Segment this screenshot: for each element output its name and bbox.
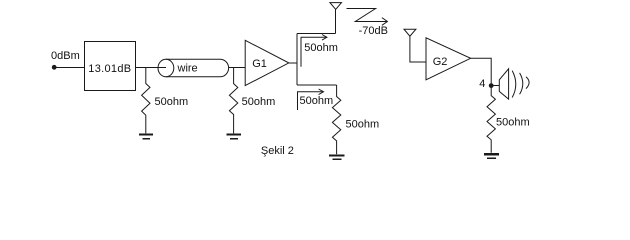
impedance arrow A1 50ohm [301,37,327,66]
wire bottom horizontal to R3 [297,84,337,86]
resistor R4 50ohm [487,86,495,153]
svg-text:4: 4 [479,78,485,90]
transmission line cylinder (wire) [158,59,174,77]
svg-text:-70dB: -70dB [359,25,388,37]
op-amp G2 triangle [426,38,471,80]
path loss bolt -70dB [347,9,388,22]
resistor R1 50ohm [142,68,150,134]
wire attenuator to transmission line [136,67,166,69]
svg-text:50ohm: 50ohm [304,42,338,54]
svg-text:50ohm: 50ohm [346,118,380,130]
svg-text:50ohm: 50ohm [155,96,189,108]
resistor R2 50ohm [229,68,237,134]
node 4 dot [489,83,494,88]
node source dot [52,65,57,70]
svg-text:0dBm: 0dBm [51,50,80,62]
attenuator box 13.01dB [84,41,135,90]
svg-text:wire: wire [177,62,198,74]
ground of R3 [329,154,344,156]
svg-text:Şekil 2: Şekil 2 [261,145,294,157]
op-amp G1 triangle [245,40,289,85]
svg-text:13.01dB: 13.01dB [88,63,131,75]
svg-text:G2: G2 [433,56,448,68]
ground of R4 [484,153,499,155]
wire cylinder to G1 [229,67,246,69]
svg-text:50ohm: 50ohm [496,117,530,129]
wire main vertical [296,34,298,85]
wire top horizontal to antenna [297,33,336,35]
wire node to speaker [493,85,499,87]
svg-text:G1: G1 [252,58,267,70]
speaker load [499,69,508,99]
impedance arrow A2 50ohm [298,92,324,110]
ground of R2 [227,134,241,136]
wire source to attenuator [56,67,84,69]
antenna TX [330,3,342,10]
resistor R3 50ohm [332,85,340,154]
svg-text:50ohm: 50ohm [300,95,334,107]
ground of R1 [139,134,153,136]
wire G1 to junction [289,62,298,64]
antenna RX [404,29,416,36]
wire G2 to load [471,58,492,85]
svg-text:50ohm: 50ohm [242,96,276,108]
